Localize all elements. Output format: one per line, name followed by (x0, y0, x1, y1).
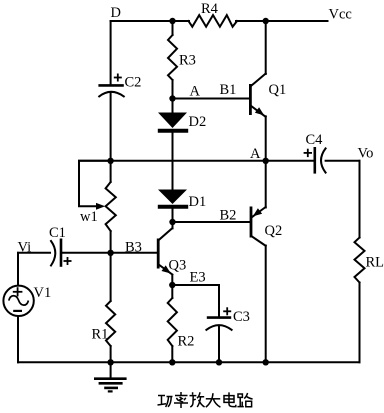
capacitor C3 (206, 307, 250, 330)
wire mid rail from w1 bracket to C4 (79, 160, 313, 162)
resistor R3 (168, 35, 196, 80)
wire w1 top lead (110, 161, 112, 182)
wire top rail left segment from D corner to R4 (111, 20, 189, 22)
wire from C4 to Vo corner (326, 160, 360, 162)
node B3 junction (107, 250, 113, 256)
svg-text:B1: B1 (220, 82, 237, 98)
wiper arrow of w1 (96, 203, 105, 210)
wire from E3 to C3 corner (172, 285, 219, 316)
ground (94, 362, 127, 391)
junction top of Q1 collector (263, 18, 269, 24)
svg-text:D: D (111, 5, 121, 21)
junction output node A at Q1/Q2 column (263, 158, 269, 164)
junction bottom rail at Q2 collector (263, 359, 269, 365)
wire top rail right segment from R4 to Vcc (236, 20, 328, 22)
node E3 junction (169, 282, 175, 288)
svg-text:D2: D2 (189, 114, 207, 130)
wire left column from D down to C2 (110, 21, 112, 84)
svg-text:Q3: Q3 (169, 258, 187, 274)
wire bottom rail (18, 361, 360, 363)
svg-text:R2: R2 (178, 334, 195, 350)
svg-text:C1: C1 (49, 225, 66, 241)
wire R3 top lead (172, 21, 174, 35)
wire Q2 emitter up to output node A (265, 161, 267, 208)
svg-text:Vo: Vo (358, 146, 374, 162)
potentiometer w1 (80, 182, 116, 231)
diode D2 (158, 113, 206, 131)
transistor Q3 (158, 228, 186, 274)
capacitor C1 (49, 225, 72, 267)
svg-text:R4: R4 (201, 1, 219, 17)
wire from Vi corner down to V1 (17, 253, 19, 286)
svg-text:V1: V1 (34, 285, 52, 301)
wire Q1 emitter down to output node A (265, 116, 267, 161)
source V1 (3, 285, 51, 316)
node B2 junction (169, 219, 175, 225)
wire from V1 down to bottom rail (17, 316, 19, 362)
svg-text:C2: C2 (125, 75, 142, 91)
wire D1 cathode lead to node B2 (172, 209, 174, 222)
transistor Q1 (250, 74, 286, 117)
wire R1 bottom lead (110, 346, 112, 362)
diode D1 (158, 190, 206, 211)
capacitor C4 (304, 132, 326, 174)
svg-text:R1: R1 (92, 327, 109, 343)
wire D2 anode lead from node A (172, 99, 174, 114)
wire w1 bracket from mid rail junction to wiper (79, 161, 111, 207)
wire Q3 collector up to node B2 (172, 222, 174, 228)
svg-text:C3: C3 (233, 309, 250, 325)
title 功率放大电路 (158, 392, 253, 408)
svg-text:Q2: Q2 (265, 223, 283, 239)
junction mid rail at left column (107, 158, 113, 164)
wire base B1 from node A to Q1 (173, 98, 250, 100)
wire Q2 collector down to bottom rail (265, 246, 267, 363)
wire right rail from RL down to bottom rail (359, 283, 361, 363)
wire C3 bottom lead to bottom rail (218, 326, 220, 362)
svg-text:A: A (250, 146, 261, 162)
wire w1 bottom lead to node B3 (110, 231, 112, 253)
svg-text:Q1: Q1 (269, 82, 287, 98)
wire from E3 down to R2 (171, 285, 173, 298)
resistor RL (355, 238, 384, 283)
svg-text:D1: D1 (189, 194, 207, 210)
junction top of R3 (169, 18, 175, 24)
wire left column from C2 down to mid rail (110, 93, 112, 161)
wire R2 bottom lead (171, 346, 173, 362)
svg-text:RL: RL (366, 255, 384, 271)
wire Q3 emitter down to node E3 (171, 275, 173, 285)
wire between D2 cathode and D1 anode crossing mid rail (172, 133, 174, 190)
wire right rail from Vo corner down to RL (359, 161, 361, 238)
wire R3 bottom lead to node A (172, 80, 174, 99)
junction bottom rail at R2 (169, 359, 175, 365)
resistor R1 (92, 301, 116, 346)
svg-text:Vcc: Vcc (329, 7, 352, 23)
wire from Vi corner to C1 (18, 252, 50, 254)
junction bottom rail at R1/ground (107, 359, 113, 365)
resistor R4 (189, 1, 238, 27)
wire from C1 to node B3 (62, 252, 111, 254)
svg-text:C4: C4 (306, 132, 324, 148)
wire from B3 down to R1 (110, 253, 112, 301)
transistor Q2 (251, 207, 282, 246)
svg-text:A: A (190, 84, 201, 100)
capacitor C2 (98, 74, 141, 97)
svg-text:E3: E3 (190, 270, 206, 286)
junction bottom rail at C3 (216, 359, 222, 365)
svg-text:R3: R3 (179, 53, 196, 69)
svg-text:w1: w1 (80, 209, 98, 225)
resistor R2 (168, 298, 195, 350)
wire base B2 from diode column to Q2 (173, 221, 250, 223)
node A junction (169, 95, 175, 101)
wire base B3 to Q3 (111, 252, 157, 254)
wire Q1 collector up to top rail (265, 21, 267, 74)
